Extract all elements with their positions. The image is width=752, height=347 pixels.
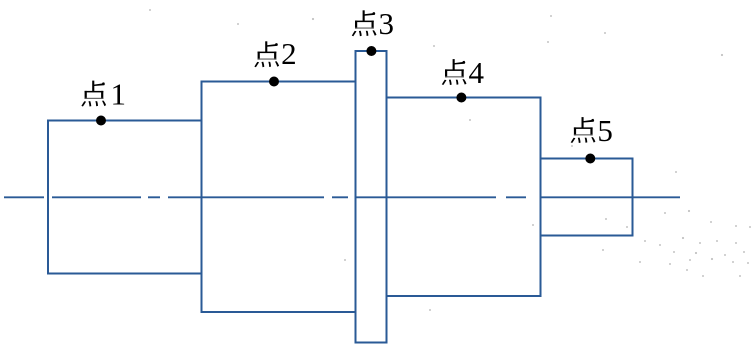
flange section 3 [356,51,387,343]
shaft section 2 [202,82,356,313]
node point 1 [96,116,106,126]
node point 4 [456,93,466,103]
svg-text:3: 3 [379,6,395,41]
faint scan speckles [149,9,751,311]
node point 5 [585,154,595,164]
label 点1 [81,81,106,107]
shaft section 1 [48,121,202,274]
label 点4 [442,59,467,85]
node point 3 [366,46,376,56]
label 点2 [254,41,279,67]
svg-text:1: 1 [111,76,127,111]
label 点3 [352,10,377,36]
svg-text:5: 5 [597,113,613,148]
label 点5 [571,117,596,143]
node point 2 [269,77,279,87]
svg-text:4: 4 [469,55,485,90]
shaft section 5 [541,159,633,236]
svg-text:2: 2 [281,36,297,71]
shaft section 4 [387,98,541,297]
centerline (dash-dot axis) [4,196,680,198]
